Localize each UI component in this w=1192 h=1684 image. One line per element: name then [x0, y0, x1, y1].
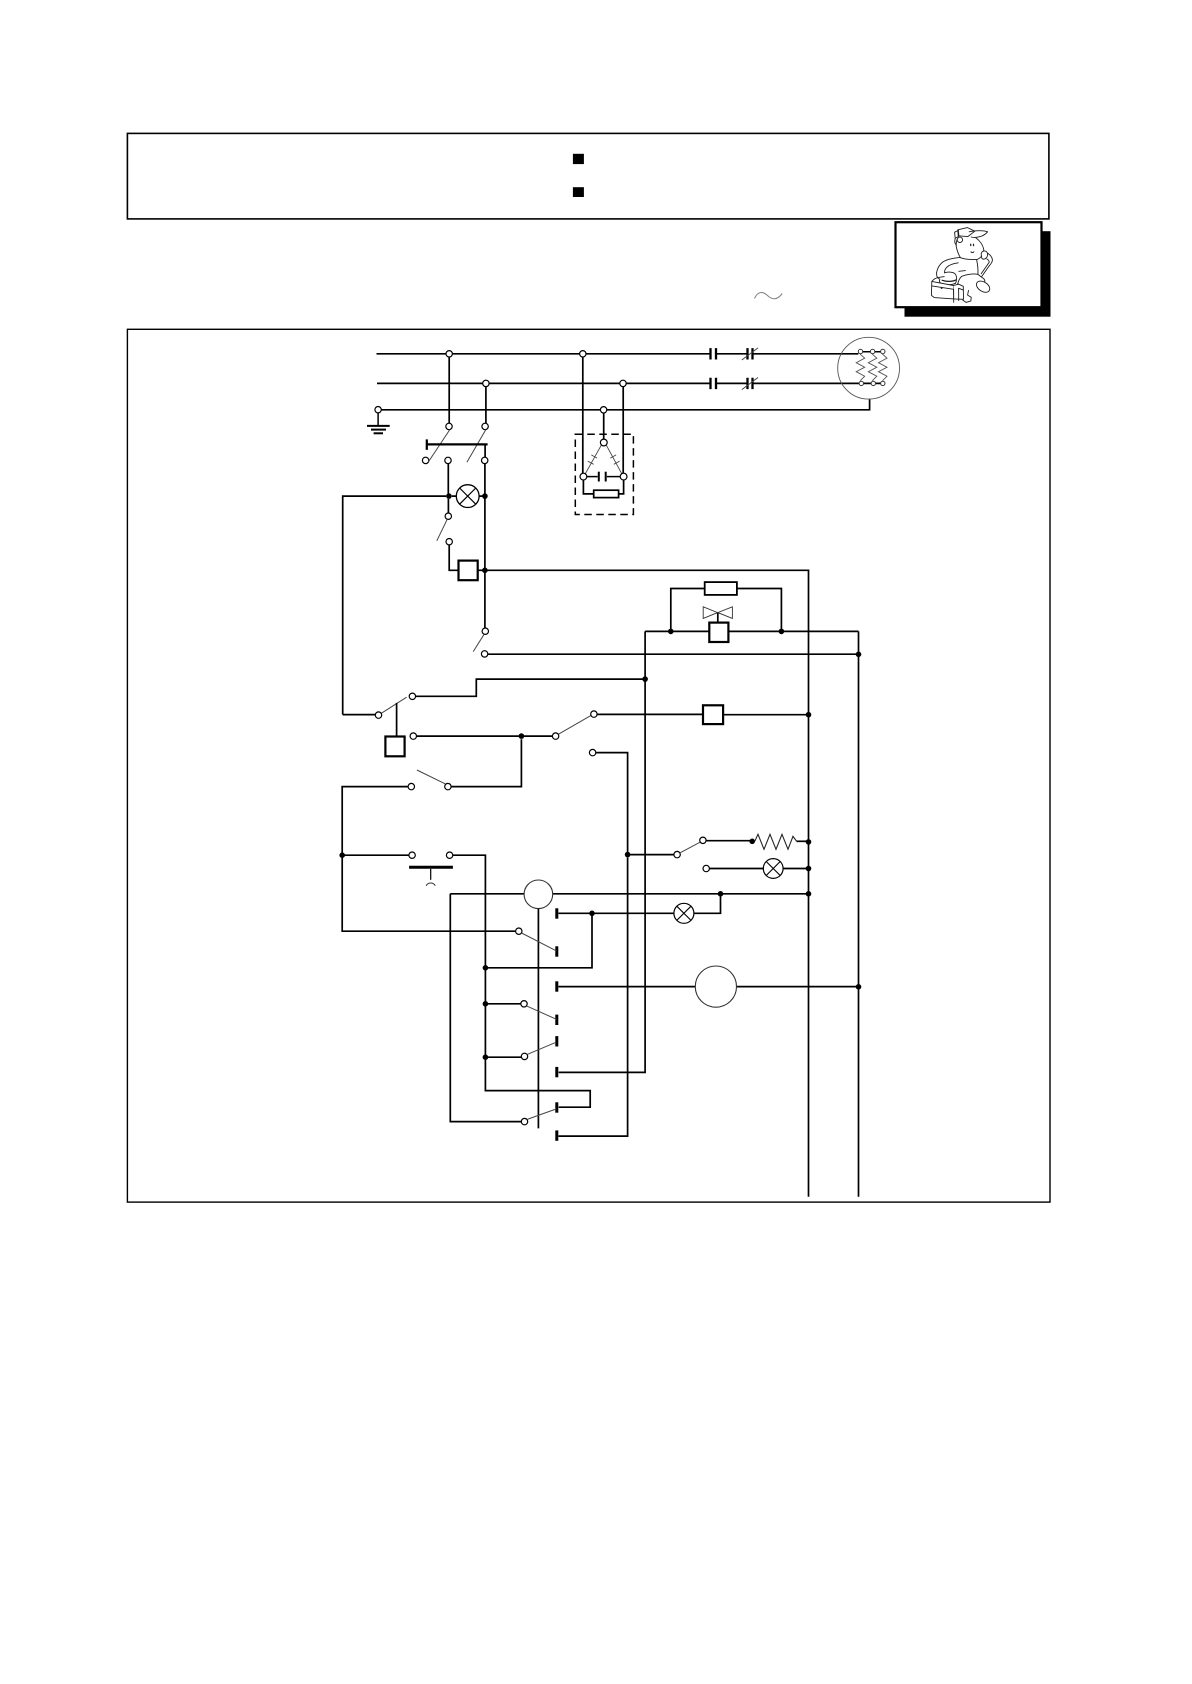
wire L2-a dropper — [485, 387, 487, 424]
wire RL1 row to right riser — [485, 570, 809, 1197]
wire S5 blade tap to RL2 — [396, 703, 398, 737]
wire supply line L2 segment a — [377, 382, 711, 384]
junction right bus upper — [856, 652, 862, 658]
title bullet square 2 — [573, 187, 584, 197]
junction cam bus 1003 — [483, 1001, 489, 1007]
wire lamp LP1 leads — [452, 495, 485, 497]
meter M3 body circle — [695, 966, 736, 1007]
junction lamp row left — [446, 493, 452, 499]
wire valve bypass loop — [671, 589, 782, 632]
switch S6 lower throw — [589, 749, 595, 755]
wire S3 to relay RL1 — [449, 545, 458, 570]
wire R2 to right bus — [797, 840, 809, 842]
node terminal L1-a — [446, 351, 452, 357]
lamp LP2 cross — [766, 862, 780, 876]
wire LP3 to riser — [694, 894, 721, 914]
wire row 893.8 — [450, 893, 808, 895]
delta top terminal — [600, 439, 607, 446]
lamp LP1 cross — [460, 488, 476, 504]
wire valve row — [645, 631, 858, 1196]
meter M2 body circle — [524, 880, 553, 909]
switch S1 pole1 bottom contact — [445, 457, 451, 463]
switch S1 pole2 top contact — [482, 423, 488, 429]
wire RL1-dot down to S4 — [484, 570, 486, 628]
junction RL1 output — [482, 568, 488, 574]
junction drop bus 854 — [625, 852, 631, 858]
motor M1 bottom terminal 1 — [859, 381, 863, 385]
cam switch blade pivot row1003 — [521, 1001, 527, 1007]
wire supply line L2 segment b — [716, 382, 748, 384]
wire S5 left lead — [343, 714, 376, 716]
lamp LP3 cross — [677, 906, 691, 920]
cam switch blade pivot row1121 — [521, 1118, 527, 1124]
switch S8 right contact — [700, 837, 706, 843]
AC tilde mark — [755, 293, 783, 299]
junction row893 mid — [718, 891, 724, 897]
wire S6 lower throw drop — [596, 753, 628, 855]
delta winding left side — [585, 445, 601, 474]
wire L1-b dropper to delta — [582, 357, 584, 474]
cam contact tick 6 — [555, 1067, 558, 1077]
wire row913 jog down — [485, 913, 592, 968]
switch S5 blade — [382, 697, 407, 713]
wire row1136 — [558, 858, 627, 1137]
wire riser 450 to cam bottom — [450, 894, 521, 1122]
wire S3 upper lead — [447, 499, 449, 513]
wire supply line L1 segment b — [716, 353, 748, 355]
node terminal L1-b — [580, 351, 586, 357]
junction mid bus at 679 — [642, 676, 648, 682]
switch S8 left contact — [674, 851, 680, 857]
junction row913 — [589, 911, 595, 917]
wire bypass-left dropper — [559, 631, 645, 1072]
pushbutton PB1 right contact — [446, 852, 452, 858]
switch S7 blade — [417, 770, 446, 784]
wire supply line L1 segment a — [377, 353, 711, 355]
relay coil RL1 — [459, 561, 478, 581]
wire lamp row left + left riser — [343, 496, 446, 714]
capacitor C2 slash — [742, 348, 758, 360]
junction K1 right bus — [806, 712, 812, 718]
pushbutton PB1 stem — [430, 869, 432, 880]
motor M1 winding coil 3 — [879, 354, 888, 381]
wire supply line L2 segment c — [753, 382, 883, 384]
motor M1 body circle — [838, 337, 900, 399]
switch S8 blade — [680, 842, 701, 853]
wire S1 pole2 bar stub — [484, 444, 486, 457]
wire L2-b dropper to delta — [622, 387, 624, 474]
protector contact left bar — [598, 472, 600, 482]
protector contact right bar — [605, 472, 607, 482]
cam switch blade pivot row931 — [516, 928, 522, 934]
wire K1 to right bus — [723, 714, 808, 716]
node terminal L3-b — [600, 407, 606, 413]
wire S6 upper throw to K1 — [597, 713, 703, 715]
schematic border frame — [127, 329, 1050, 1202]
wire S8 to resistor R2 — [706, 840, 750, 842]
switch S3 top contact — [445, 513, 451, 519]
wire supply line L3 — [381, 399, 869, 410]
cam contact tick 3 — [555, 981, 558, 991]
cam blade row1057 — [527, 1042, 556, 1054]
solenoid coil K2 — [709, 623, 728, 642]
wire S4 row to right — [488, 653, 859, 655]
switch S1 pole1 blade — [428, 430, 450, 463]
mascot cartoon figure — [931, 228, 992, 303]
wire RL1 to junction — [478, 569, 485, 571]
motor M1 winding coil 1 — [856, 354, 865, 381]
junction row893 right bus — [806, 891, 812, 897]
ground symbol — [367, 413, 390, 433]
node terminal on L3 left — [375, 407, 381, 413]
relay coil K1 — [703, 705, 723, 724]
junction R2 right bus — [806, 839, 812, 845]
motor M1 top terminal 3 — [881, 349, 885, 353]
junction R2 left — [749, 839, 755, 845]
junction S6 row — [519, 733, 525, 739]
wire PB1 left lead — [342, 854, 409, 856]
switch S1 pole1 top contact — [446, 423, 452, 429]
switch S1 pole1 aux contact — [422, 457, 428, 463]
junction lamp row right — [482, 493, 488, 499]
wire supply line L1 segment c — [753, 353, 859, 355]
motor M1 top link wire — [861, 351, 883, 353]
delta bottom-left terminal — [580, 473, 587, 480]
cam contact tick 4 — [555, 1015, 558, 1025]
junction bypass left — [668, 629, 674, 635]
cam contact tick 2 — [555, 946, 558, 956]
wire S7 to riser 521 — [451, 739, 521, 786]
lamp LP2 body — [763, 859, 783, 879]
switch S6 common terminal — [410, 733, 416, 739]
mascot panel box — [896, 222, 1042, 307]
relay coil RL2 — [385, 737, 404, 757]
junction left bus 855 — [339, 852, 345, 858]
wire row1057 — [485, 1056, 521, 1058]
switch S7 left contact — [408, 783, 414, 789]
lamp LP2 feed contact — [703, 865, 709, 871]
wire row786 left + riser to 855 — [342, 787, 515, 932]
junction cam bus 1057 — [483, 1054, 489, 1060]
wire L3-b dropper to delta — [603, 413, 605, 439]
motor M1 winding coil 2 — [868, 354, 877, 381]
mascot panel shadow — [905, 231, 1051, 317]
motor M1 top terminal 2 — [870, 349, 874, 353]
cam contact tick 7 — [555, 1102, 558, 1112]
switch S7 right contact — [445, 783, 451, 789]
switch S4 top contact — [482, 628, 488, 634]
switch S5 fixed contact — [409, 693, 415, 699]
pushbutton PB1 spring arc — [426, 883, 435, 886]
delta right side ticks — [610, 455, 619, 464]
resistor R3 bypass — [705, 582, 737, 595]
capacitor C4 plates — [748, 378, 753, 389]
wire LP2 leads — [709, 868, 808, 870]
capacitor C3 plates — [711, 378, 717, 389]
cam switch blade pivot row1057 — [521, 1053, 527, 1059]
wire S6 common row — [417, 735, 553, 737]
node terminal L2-a — [483, 380, 489, 386]
cam blade row1121 — [527, 1109, 556, 1120]
delta left side ticks — [588, 455, 597, 464]
lamp LP1 body — [456, 485, 479, 508]
wire row986 to meter M3 — [558, 986, 858, 988]
wire row913 left — [558, 912, 674, 914]
junction bypass right — [779, 629, 785, 635]
switch S5 moving contact — [375, 712, 381, 718]
wire PB1 right lead to cam bus — [453, 855, 590, 1107]
motor M1 top terminal 1 — [858, 349, 862, 353]
junction cam bus 967 — [483, 965, 489, 971]
motor M1 bottom terminal 2 — [871, 381, 875, 385]
junction row986 right bus — [856, 984, 862, 990]
cam blade row931 — [522, 933, 557, 951]
wire S1 pole2 down lead — [484, 464, 486, 494]
switch S4 bottom contact — [481, 651, 487, 657]
pushbutton PB1 actuator bar — [409, 866, 453, 869]
valve V1 bowtie symbol — [703, 607, 732, 619]
switch S6 upper throw — [591, 711, 597, 717]
title bullet square 1 — [573, 154, 584, 164]
switch S1 mechanical bar — [427, 439, 488, 450]
wire stepped row 679 — [416, 679, 645, 696]
switch S6 blade — [559, 716, 591, 735]
switch S4 blade — [473, 635, 484, 652]
switch S3 bottom contact — [446, 539, 452, 545]
switch S6 pivot contact — [552, 733, 558, 739]
delta bottom-right terminal — [620, 473, 627, 480]
switch S1 pole2 blade — [467, 430, 486, 463]
wire delta heater loop — [583, 480, 623, 494]
cam contact tick 1 — [555, 908, 558, 918]
wire L1-a dropper — [448, 357, 450, 423]
resistor R2 zigzag — [755, 834, 797, 849]
node terminal L2-b — [620, 380, 626, 386]
wire lamp-dot to RL1-dot riser — [484, 496, 486, 570]
cam contact tick 5 — [555, 1036, 558, 1046]
header title box — [127, 133, 1049, 219]
junction LP2 right bus — [806, 866, 812, 872]
capacitor C2 plates — [748, 348, 753, 359]
resistor R1 heater element — [594, 490, 619, 497]
cam blade row1003 — [527, 1006, 557, 1019]
cam contact tick 8 — [555, 1130, 558, 1140]
capacitor C1 plates — [711, 348, 717, 359]
protector dashed enclosure — [575, 434, 633, 514]
switch S3 blade — [437, 519, 447, 541]
wire M2 bottom stem — [537, 909, 539, 1129]
wire row1003 — [485, 1003, 520, 1005]
protector contact right lead — [607, 476, 621, 478]
wire row854 to switch S8 — [628, 854, 674, 856]
lamp LP3 body — [674, 903, 694, 923]
delta winding right side — [606, 445, 621, 474]
pushbutton PB1 left contact — [409, 852, 415, 858]
switch S1 pole2 bottom contact — [482, 457, 488, 463]
protector contact left lead — [587, 476, 598, 478]
capacitor C4 slash — [742, 378, 758, 390]
wire valve stem — [717, 613, 719, 623]
motor M1 bottom terminal 3 — [881, 381, 885, 385]
wire S1 pole1 down lead — [447, 464, 449, 494]
